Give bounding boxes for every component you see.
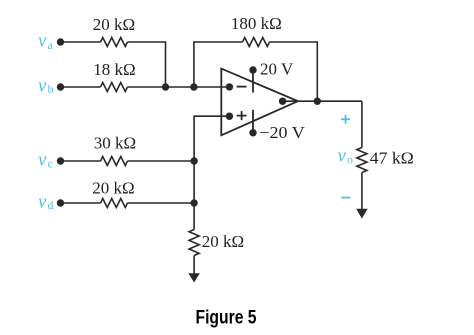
wire vc to node (128, 160, 195, 162)
svg-text:47 kΩ: 47 kΩ (370, 149, 414, 168)
supply line +20V (252, 70, 254, 93)
wire vd to node (128, 202, 195, 204)
terminal dot vb (57, 83, 64, 90)
dot -20V supply (249, 129, 256, 136)
junction dot vd node (190, 199, 197, 206)
dot minus input (226, 83, 233, 90)
svg-text:v: v (38, 31, 47, 52)
resistor 20k (va) (101, 38, 128, 47)
resistor 20k bottom (189, 230, 199, 256)
wire feedback left vertical (194, 42, 243, 87)
plus input sign (237, 111, 247, 120)
junction dot vc node (190, 157, 197, 164)
resistor 47k (357, 148, 367, 173)
svg-text:20 kΩ: 20 kΩ (92, 179, 134, 198)
svg-text:c: c (48, 156, 53, 170)
svg-text:v: v (38, 76, 47, 97)
wire output (283, 100, 362, 102)
dot +20V supply (249, 66, 256, 73)
wire va lead (61, 41, 101, 43)
junction dot output node (314, 98, 321, 105)
ground arrow 47k (356, 209, 367, 219)
plus sign output polarity (341, 115, 350, 124)
svg-text:b: b (48, 82, 54, 96)
svg-text:20 V: 20 V (260, 60, 294, 79)
minus input sign (237, 86, 247, 88)
junction dot feedback tap (190, 83, 197, 90)
wire vc lead (61, 160, 101, 162)
svg-text:20 kΩ: 20 kΩ (93, 15, 135, 34)
terminal dot va (57, 38, 64, 45)
wire vb to op-amp minus input (128, 86, 230, 88)
svg-text:18 kΩ: 18 kΩ (93, 60, 135, 79)
wire vd lead (61, 202, 101, 204)
wire right vertical to 47k (361, 101, 363, 147)
wire 20k bottom to arrow (193, 256, 195, 275)
svg-text:o: o (347, 152, 353, 166)
dot output pin (279, 98, 286, 105)
wire 47k to arrow (361, 173, 363, 210)
wire plus input (194, 116, 229, 229)
svg-text:180 kΩ: 180 kΩ (231, 14, 282, 33)
svg-text:20 kΩ: 20 kΩ (202, 232, 244, 251)
svg-text:a: a (48, 38, 54, 52)
terminal dot vd (57, 199, 64, 206)
svg-text:v: v (38, 192, 47, 213)
op-amp U1 (221, 69, 298, 136)
minus sign output polarity (341, 197, 350, 199)
svg-text:d: d (48, 198, 54, 212)
svg-text:30 kΩ: 30 kΩ (94, 134, 136, 153)
resistor 20k (vd) (101, 199, 128, 208)
resistor 30k (vc) (101, 157, 128, 166)
wire va to corner (128, 42, 166, 87)
wire feedback right to output (270, 42, 318, 101)
dot plus input (226, 113, 233, 120)
wire vb lead (61, 86, 101, 88)
svg-text:v: v (38, 150, 47, 171)
svg-text:Figure 5: Figure 5 (196, 308, 257, 329)
supply line -20V (252, 110, 254, 133)
terminal dot vc (57, 157, 64, 164)
junction dot va-vb (162, 83, 169, 90)
ground arrow bottom 20k (188, 273, 199, 282)
resistor 180k feedback (243, 38, 270, 47)
svg-text:−20 V: −20 V (259, 123, 305, 142)
resistor 18k (vb) (101, 83, 128, 92)
svg-text:v: v (338, 146, 347, 167)
